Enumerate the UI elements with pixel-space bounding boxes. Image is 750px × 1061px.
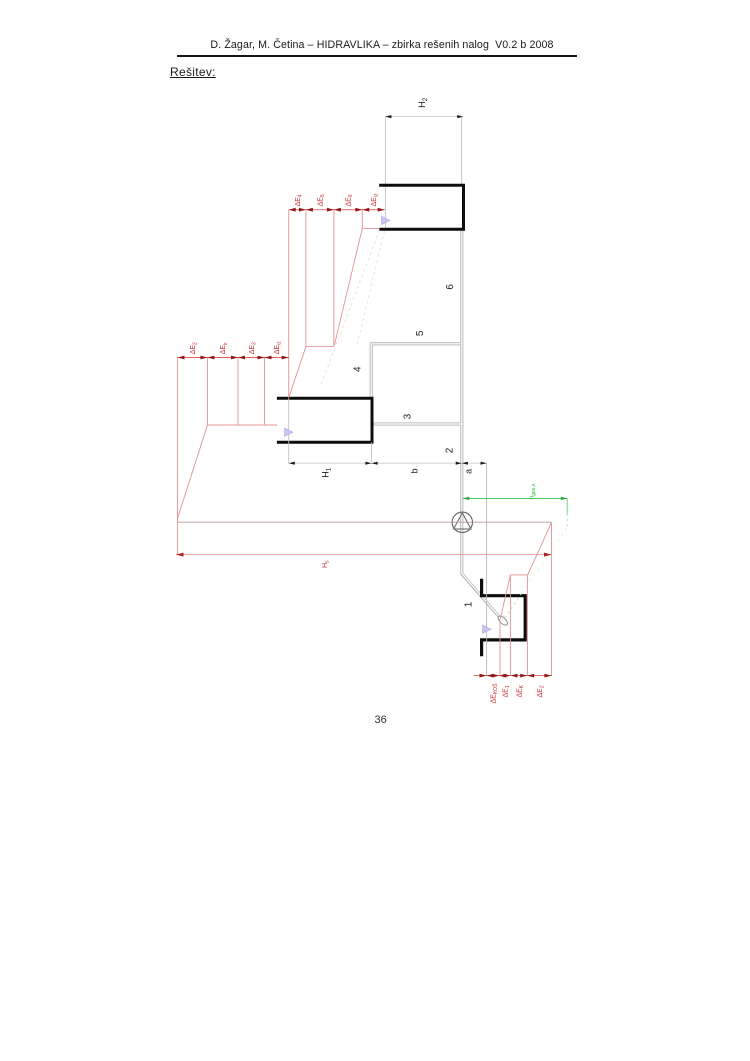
- left loss chain line: [178, 357, 289, 359]
- Hs arrow left: [176, 553, 184, 557]
- svg-text:ΔE5: ΔE5: [317, 194, 326, 206]
- EGL ext x362: [361, 210, 363, 229]
- left chain arrows: [178, 356, 289, 360]
- Hs arrow right: [544, 553, 552, 557]
- pipe 5-4 outline: [370, 344, 462, 398]
- svg-text:b: b: [409, 468, 419, 473]
- left chain ext x177: [177, 358, 179, 555]
- pump circle: [452, 512, 472, 532]
- dashed projection line B: [321, 230, 380, 386]
- H2 extension left: [384, 117, 386, 229]
- bottom loss chain line: [474, 675, 552, 677]
- svg-text:H1: H1: [321, 467, 333, 478]
- svg-text:ΔE2: ΔE2: [537, 685, 546, 697]
- header rule: [177, 55, 577, 57]
- tank T-middle: [277, 398, 372, 442]
- H2 arrow left: [385, 115, 391, 118]
- a arrow left: [462, 462, 468, 465]
- water level arrow middle tank: [285, 428, 294, 436]
- EGL diagonal pipe2: [528, 522, 552, 575]
- tank T1: [482, 579, 526, 656]
- top chain arrows: [289, 208, 385, 212]
- green dashed guide to strainer: [522, 528, 567, 594]
- left chain ext x207: [206, 358, 208, 426]
- left chain ext x238: [237, 358, 239, 425]
- H2 arrow right: [457, 115, 463, 118]
- svg-text:ΔE2: ΔE2: [190, 342, 199, 354]
- EGL diagonal pipe1: [500, 575, 510, 619]
- Hs dimension line: [176, 554, 552, 556]
- pipe 5-4 bore: [371, 344, 461, 397]
- svg-text:3: 3: [403, 413, 414, 419]
- svg-text:ΔE4: ΔE4: [295, 194, 304, 206]
- svg-text:4: 4: [353, 366, 364, 372]
- b arrow right: [456, 462, 462, 465]
- a extension right: [486, 463, 488, 675]
- svg-text:H2: H2: [417, 97, 429, 108]
- svg-text:Hs: Hs: [322, 560, 331, 568]
- EGL horizontal to tank2 mouth: [362, 227, 379, 229]
- svg-text:ΔEk: ΔEk: [220, 342, 229, 354]
- H1 extension left: [288, 398, 290, 463]
- pipe 6-2-1 outline: [462, 229, 501, 618]
- svg-text:ΔEiz: ΔEiz: [274, 341, 283, 354]
- header title: [7, 39, 750, 51]
- green arrow left: [463, 497, 470, 500]
- svg-text:ΔEKOŠ: ΔEKOŠ: [490, 683, 499, 704]
- green dashed near strainer: [503, 594, 522, 621]
- svg-text:1: 1: [464, 601, 475, 607]
- green arrow right: [561, 497, 568, 500]
- water level arrow tank1: [483, 625, 492, 633]
- H2 dimension line: [385, 116, 463, 118]
- svg-text:6: 6: [445, 284, 456, 290]
- top loss chain line: [289, 209, 385, 211]
- pipe 6-2-1 bore: [462, 230, 500, 618]
- b arrow left: [372, 462, 378, 465]
- H2 extension right: [461, 117, 463, 185]
- dashed projection line A: [357, 231, 385, 345]
- svg-text:ΔE3: ΔE3: [249, 342, 258, 354]
- EGL elbow drop: [306, 346, 334, 348]
- EGL vertical lower reservoir level: [551, 522, 553, 675]
- H1 extension right: [371, 442, 373, 463]
- water level arrow tank2: [382, 216, 391, 224]
- Resitev label: [170, 65, 216, 79]
- EGL ext x334: [333, 210, 335, 346]
- EGL diagonal pump discharge: [178, 425, 208, 518]
- svg-text:ΔE1: ΔE1: [502, 685, 511, 697]
- tank T2: [379, 185, 463, 229]
- green dashed vertical: [566, 514, 568, 528]
- EGL ext x527: [526, 575, 528, 676]
- pump level line: [177, 521, 551, 523]
- EGL vertical at middle tank level: [288, 210, 290, 398]
- svg-text:hgeo,s: hgeo,s: [529, 483, 537, 499]
- H1 b a dimension line: [289, 462, 487, 464]
- pipe 3 bore: [374, 423, 462, 425]
- green dimension line: [463, 497, 568, 499]
- EGL ext x510: [509, 575, 511, 676]
- strainer ellipse: [497, 614, 509, 626]
- H1 arrow right: [365, 462, 371, 465]
- EGL horizontal at middle level: [207, 424, 277, 426]
- EGL diagonal pipe6-5: [334, 228, 362, 345]
- svg-text:ΔEK: ΔEK: [516, 684, 525, 697]
- EGL ext x500: [499, 619, 501, 676]
- H1 arrow left: [289, 462, 295, 465]
- left chain ext x264: [264, 358, 266, 425]
- bottom chain arrows: [480, 674, 552, 678]
- a arrow right: [481, 462, 487, 465]
- green extension vertical: [566, 498, 568, 514]
- EGL diagonal pipe4: [289, 347, 306, 398]
- pump triangle: [454, 513, 471, 529]
- svg-text:5: 5: [415, 330, 426, 336]
- svg-text:2: 2: [445, 447, 456, 453]
- page number: [375, 714, 387, 726]
- svg-text:ΔEiz: ΔEiz: [371, 193, 380, 206]
- svg-text:ΔE6: ΔE6: [346, 194, 355, 206]
- pipe 3 outline: [372, 422, 463, 425]
- EGL horizontal elbow drop low: [510, 574, 527, 576]
- svg-text:a: a: [464, 469, 474, 474]
- EGL ext x306: [305, 210, 307, 348]
